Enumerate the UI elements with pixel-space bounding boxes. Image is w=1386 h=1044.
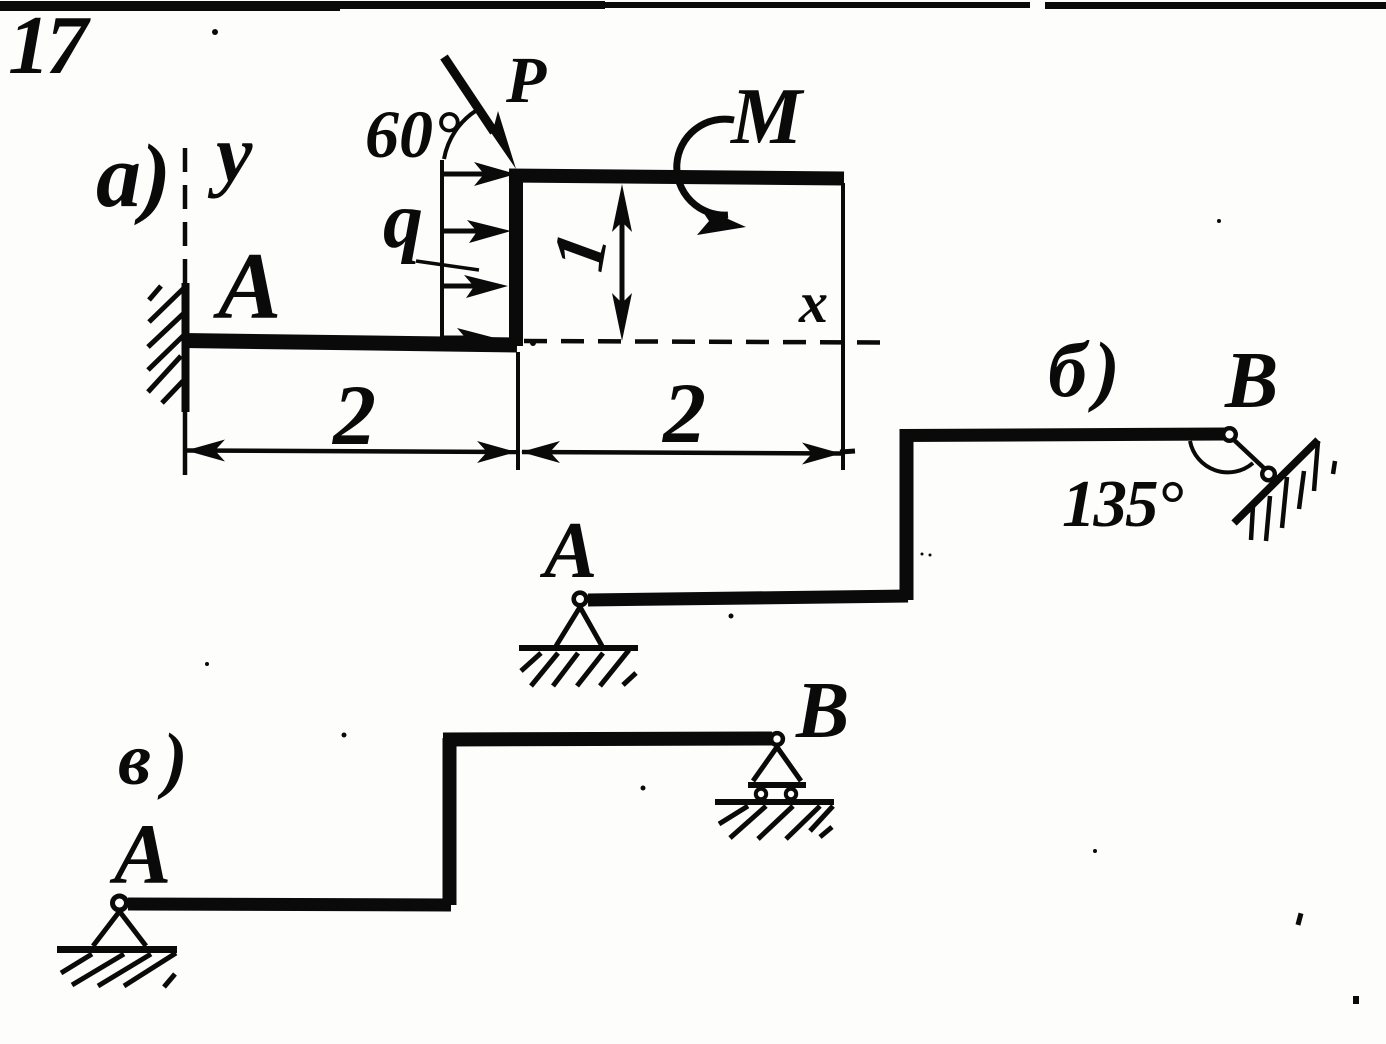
moment M arc bbox=[677, 119, 746, 235]
svg-text:A: A bbox=[109, 806, 171, 902]
angle arc 60 bbox=[444, 110, 477, 159]
svg-text:B: B bbox=[1224, 337, 1278, 425]
svg-text:в): в) bbox=[118, 719, 200, 801]
pin circle B bbox=[1223, 428, 1236, 441]
beam lower segment v bbox=[128, 904, 451, 905]
pin circle A (fig b) bbox=[574, 593, 587, 606]
svg-text:а): а) bbox=[96, 127, 171, 226]
load arrow 3 bbox=[442, 275, 508, 298]
distributed load boundary bbox=[440, 160, 444, 340]
y axis dashed line bbox=[183, 148, 188, 283]
load arrow 2 bbox=[442, 220, 511, 243]
svg-text:2: 2 bbox=[661, 365, 706, 461]
svg-text:B: B bbox=[795, 667, 849, 755]
ground hatching A (fig v) bbox=[61, 953, 176, 987]
dimension tick middle bbox=[516, 352, 520, 470]
svg-text:P: P bbox=[505, 44, 547, 117]
beam lower segment A bbox=[183, 341, 517, 346]
link B to support bbox=[1234, 440, 1266, 470]
svg-text:1: 1 bbox=[537, 226, 624, 277]
beam upper segment v bbox=[443, 739, 772, 740]
dimension 1 arrow line bbox=[612, 184, 632, 341]
x axis dashed bbox=[524, 341, 884, 343]
svg-text:17: 17 bbox=[8, 0, 91, 92]
roller triangle B (fig v) bbox=[753, 747, 801, 781]
leader line q bbox=[416, 261, 479, 270]
beam vertical segment bbox=[509, 172, 523, 346]
force P line bbox=[444, 57, 516, 169]
pin circle A (fig v) bbox=[113, 896, 127, 910]
roller circle 2 bbox=[786, 789, 796, 799]
svg-text:M: M bbox=[729, 73, 805, 161]
svg-text:q: q bbox=[383, 177, 423, 265]
pin circle B (fig v) bbox=[771, 733, 783, 745]
ground line B (fig v) bbox=[715, 799, 834, 805]
pin triangle A (fig v) bbox=[93, 912, 146, 946]
inclined support hatching bbox=[1251, 441, 1335, 541]
svg-text:y: y bbox=[207, 108, 253, 199]
wall hatching bbox=[148, 286, 184, 403]
ground line A (fig b) bbox=[519, 645, 638, 651]
beam vertical segment b bbox=[900, 429, 914, 600]
ground hatching A (fig b) bbox=[521, 650, 636, 686]
ground line A (fig v) bbox=[57, 946, 177, 953]
beam vertical segment v bbox=[443, 738, 457, 905]
svg-text:A: A bbox=[213, 233, 281, 339]
scan noise dots bbox=[205, 29, 1359, 1004]
load arrow 4 bbox=[442, 328, 499, 351]
wall line at A bbox=[182, 283, 190, 412]
pin circle support bbox=[1262, 468, 1275, 481]
dimension line right segment bbox=[521, 441, 855, 465]
svg-text:x: x bbox=[798, 270, 828, 335]
svg-text:A: A bbox=[539, 507, 597, 595]
angle arc 135 bbox=[1190, 441, 1253, 472]
svg-text:135°: 135° bbox=[1062, 467, 1184, 541]
load arrow 1 bbox=[442, 162, 516, 186]
extension line right end bbox=[841, 183, 845, 470]
scan border top bar bbox=[0, 1, 1386, 11]
beam upper segment bbox=[509, 176, 844, 179]
pin triangle A (fig b) bbox=[556, 607, 602, 646]
roller triangle base bar bbox=[748, 782, 806, 788]
beam upper segment b bbox=[900, 434, 1226, 436]
svg-text:2: 2 bbox=[331, 367, 376, 463]
dimension line left segment bbox=[186, 440, 516, 464]
svg-text:60°: 60° bbox=[365, 96, 460, 172]
inclined support surface bbox=[1234, 440, 1318, 523]
svg-text:б): б) bbox=[1048, 326, 1127, 413]
beam lower segment b bbox=[588, 596, 908, 600]
roller circle 1 bbox=[756, 789, 766, 799]
ground hatching B (fig v) bbox=[719, 806, 833, 839]
